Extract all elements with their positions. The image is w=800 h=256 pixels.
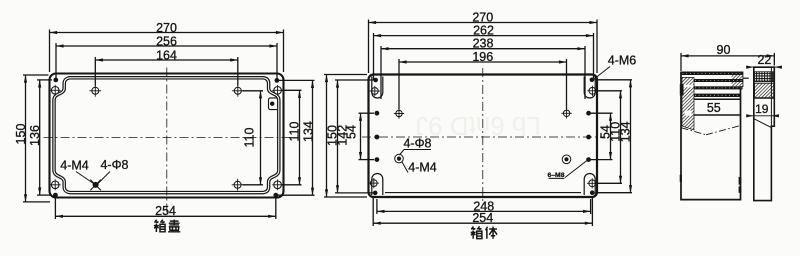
svg-text:150: 150	[14, 124, 28, 145]
svg-text:136: 136	[28, 125, 42, 146]
svg-text:254: 254	[155, 204, 176, 218]
svg-text:256: 256	[156, 35, 177, 49]
svg-text:254: 254	[472, 211, 493, 225]
svg-text:19: 19	[755, 102, 769, 116]
svg-text:54: 54	[344, 125, 358, 139]
svg-text:196: 196	[472, 50, 493, 64]
svg-text:55: 55	[707, 101, 721, 115]
svg-text:4-M6: 4-M6	[608, 54, 637, 68]
svg-text:164: 164	[156, 49, 177, 63]
svg-text:134: 134	[302, 121, 316, 142]
svg-text:4-M4: 4-M4	[60, 159, 89, 173]
svg-text:134: 134	[619, 121, 633, 142]
svg-text:4-M4: 4-M4	[408, 161, 437, 175]
svg-text:Lb 6ntD 9J: Lb 6ntD 9J	[415, 111, 541, 141]
svg-text:270: 270	[156, 21, 177, 35]
svg-text:22: 22	[757, 53, 771, 67]
svg-text:238: 238	[473, 37, 494, 51]
svg-text:90: 90	[717, 43, 731, 57]
svg-text:4-Φ8: 4-Φ8	[403, 137, 431, 151]
svg-text:110: 110	[243, 127, 257, 147]
svg-text:4-Φ8: 4-Φ8	[100, 158, 128, 172]
svg-text:110: 110	[288, 121, 302, 141]
svg-text:262: 262	[473, 24, 494, 38]
svg-text:270: 270	[472, 10, 493, 24]
